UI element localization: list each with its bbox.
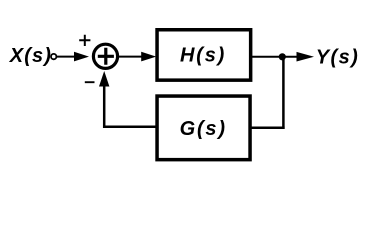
input terminal open circle <box>51 54 56 59</box>
summing junction S1 <box>93 44 117 68</box>
block H(s) <box>157 30 251 80</box>
wire H(s) to Y(s) <box>252 56 300 58</box>
arrowhead to Y(s) <box>297 52 315 62</box>
svg-text:G(s): G(s) <box>180 118 227 140</box>
wire G(s) output to left corner <box>103 126 156 129</box>
plus sign inside summing junction <box>98 48 114 65</box>
arrowhead into summing junction bottom <box>99 71 109 87</box>
wire feedback into G(s) right side <box>250 126 285 129</box>
arrowhead into H(s) <box>141 52 156 62</box>
wire summing junction to H(s) <box>119 56 143 58</box>
plus label at summing input <box>79 35 90 46</box>
node junction dot <box>279 53 286 60</box>
wire X(s) to summing junction <box>57 56 76 58</box>
svg-text:Y(s): Y(s) <box>316 46 359 68</box>
wire feedback up to summing junction <box>103 84 106 128</box>
block G(s) <box>157 96 250 160</box>
minus label at feedback input <box>85 81 95 83</box>
svg-text:X(s): X(s) <box>9 45 52 67</box>
wire node down to feedback level <box>282 57 285 129</box>
svg-text:H(s): H(s) <box>180 45 226 67</box>
arrowhead into summing junction <box>74 52 89 62</box>
